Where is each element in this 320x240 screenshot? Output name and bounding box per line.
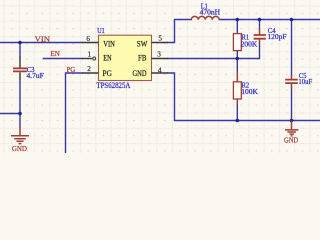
svg-text:GND: GND [12, 144, 28, 153]
svg-text:120pF: 120pF [267, 32, 286, 41]
svg-text:10uF: 10uF [298, 77, 312, 86]
svg-text:GND: GND [133, 69, 147, 78]
svg-text:FB: FB [138, 53, 146, 62]
svg-text:GND: GND [284, 135, 299, 144]
svg-text:4.7uF: 4.7uF [27, 71, 44, 80]
svg-text:SW: SW [137, 39, 148, 48]
svg-text:TPS62825A: TPS62825A [96, 81, 130, 90]
svg-text:PG: PG [103, 69, 113, 78]
svg-text:470nH: 470nH [200, 8, 221, 17]
svg-text:EN: EN [103, 53, 112, 62]
svg-text:5: 5 [158, 35, 162, 43]
svg-text:PG: PG [67, 65, 76, 74]
svg-text:3: 3 [157, 51, 161, 59]
svg-text:VIN: VIN [103, 40, 115, 49]
svg-text:1: 1 [88, 50, 92, 58]
svg-text:100K: 100K [241, 87, 258, 96]
svg-text:VIN: VIN [35, 35, 51, 44]
svg-text:200K: 200K [241, 40, 258, 49]
svg-text:4: 4 [158, 66, 162, 74]
svg-text:U1: U1 [97, 26, 105, 35]
svg-text:EN: EN [51, 49, 61, 58]
svg-text:6: 6 [86, 35, 90, 43]
svg-text:2: 2 [87, 65, 91, 73]
